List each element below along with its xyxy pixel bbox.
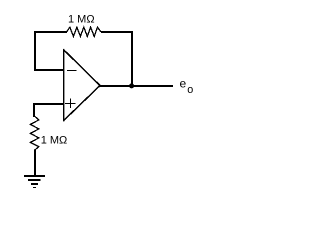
wire: feedback top-left segment	[34, 31, 67, 33]
wire: op-amp output to eo	[100, 85, 173, 87]
svg-text:e: e	[180, 77, 187, 91]
ground	[24, 176, 45, 188]
label: output eo	[180, 77, 194, 96]
svg-text:1 MΩ: 1 MΩ	[41, 135, 68, 147]
wire: feedback drop to output node	[131, 31, 133, 87]
resistor R2 1 MΩ (input, vertical zigzag)	[30, 116, 38, 150]
wire: inverting input lead	[34, 69, 64, 71]
node: output junction dot	[129, 83, 134, 88]
resistor R1 1 MΩ (feedback, horizontal zigzag)	[67, 27, 102, 36]
op-amp inverting pin symbol (−)	[67, 70, 77, 72]
svg-text:o: o	[187, 84, 193, 96]
wire: R2 to ground	[34, 150, 36, 176]
op-amp U1 (triangle)	[64, 49, 101, 122]
wire: non-inverting vertical down to R2	[33, 103, 35, 117]
op-amp non-inverting pin symbol (+)	[65, 98, 76, 108]
wire: feedback top-right segment	[101, 31, 133, 33]
wire: non-inverting input lead	[34, 103, 64, 105]
svg-text:1 MΩ: 1 MΩ	[68, 14, 95, 26]
wire: feedback left vertical	[34, 31, 36, 71]
